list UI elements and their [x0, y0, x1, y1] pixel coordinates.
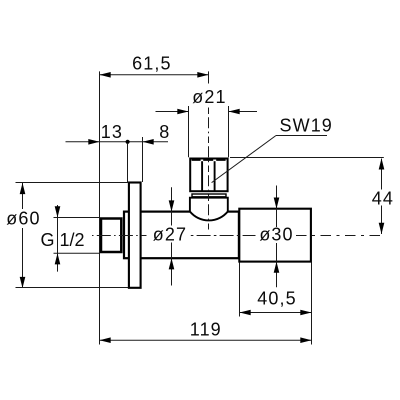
- svg-text:40,5: 40,5: [257, 289, 296, 309]
- SW19 leader diagonal: [212, 136, 276, 183]
- dim o60 vertical line lower: [22, 228, 24, 288]
- vertical centerline: [208, 108, 210, 230]
- dim 61,5 right tick: [208, 71, 210, 83]
- o60 extension bottom: [16, 287, 129, 289]
- dim 61,5 arrow left: [100, 72, 111, 78]
- dim o21 arrow left: [177, 109, 188, 115]
- svg-text:8: 8: [159, 122, 170, 142]
- dim o60 arrow top: [20, 183, 26, 194]
- 40,5 arrow left: [240, 310, 251, 316]
- dim 13-8 line: [66, 141, 169, 143]
- dim 61,5 line: [100, 74, 209, 76]
- 40,5 and 119 extension right: [311, 263, 313, 345]
- dim G1/2 vertical line: [57, 205, 59, 272]
- hex chamfer bar right: [216, 159, 225, 161]
- horizontal centerline seg2: [191, 235, 256, 237]
- dim o21 arrow right: [229, 109, 240, 115]
- 40,5 extension left: [239, 263, 241, 317]
- hex chamfer bar mid: [203, 159, 213, 161]
- svg-text:ø30: ø30: [259, 225, 293, 245]
- 44 top extension: [230, 157, 384, 159]
- bonnet dome: [190, 198, 228, 221]
- hex chamfer bar left: [192, 159, 201, 161]
- svg-text:44: 44: [372, 189, 394, 209]
- wall flange o60: [129, 183, 141, 288]
- dim o60 arrow bottom: [20, 277, 26, 288]
- 119 arrow right: [300, 337, 311, 343]
- G1/2 arrow down: [55, 206, 61, 217]
- extension from dot: [127, 143, 129, 182]
- body tube o27: [124, 212, 239, 259]
- horizontal centerline seg1: [92, 235, 147, 237]
- dim 13 arrow: [88, 139, 99, 145]
- extension line left long: [99, 71, 101, 344]
- o21 extension left: [188, 106, 190, 157]
- dim o27 vertical line upper: [171, 187, 173, 225]
- svg-text:ø27: ø27: [153, 225, 187, 245]
- 44 arrow up: [379, 158, 385, 169]
- dim 119 line: [100, 339, 312, 341]
- threaded nipple G1/2: [101, 219, 121, 253]
- hex facet line right: [214, 161, 216, 191]
- 40,5 arrow right: [300, 310, 311, 316]
- 44 arrow down: [379, 223, 385, 234]
- dim o21 line right tail: [229, 111, 258, 113]
- svg-text:119: 119: [190, 320, 222, 340]
- hex facet line left: [201, 161, 203, 191]
- dim 61,5 arrow right: [197, 72, 208, 78]
- svg-text:ø60: ø60: [6, 209, 40, 229]
- o27 arrow down: [169, 200, 175, 211]
- svg-text:SW19: SW19: [280, 115, 333, 135]
- dim 40,5 line: [240, 312, 312, 314]
- o27 arrow up: [169, 258, 175, 269]
- svg-text:13: 13: [101, 122, 123, 142]
- o30 arrow up: [274, 262, 280, 273]
- dim o30 vertical line lower: [276, 243, 278, 287]
- hex head SW19: [190, 159, 227, 192]
- washer ring: [192, 194, 226, 197]
- horizontal centerline seg3: [296, 235, 385, 237]
- dim o60 vertical line upper: [22, 183, 24, 209]
- G1/2 arrow up: [55, 253, 61, 264]
- SW19 leader underline: [276, 135, 327, 137]
- extension 8 right: [142, 137, 144, 182]
- G1/2 extension bottom: [54, 252, 101, 254]
- outlet cylinder o30: [239, 209, 311, 262]
- o60 extension top: [16, 182, 129, 184]
- svg-text:61,5: 61,5: [132, 53, 171, 73]
- dim 8 arrow: [143, 139, 154, 145]
- dim 44 vertical line lower: [381, 206, 383, 235]
- dim 44 vertical line upper: [381, 159, 383, 190]
- svg-text:ø21: ø21: [192, 87, 226, 107]
- o21 extension right: [228, 106, 230, 157]
- dim o30 vertical line upper: [276, 186, 278, 228]
- dim junction dot: [126, 140, 130, 144]
- dim o21 line left tail: [156, 111, 189, 113]
- dim o27 vertical line lower: [171, 243, 173, 286]
- 119 arrow left: [100, 337, 111, 343]
- o30 arrow down: [274, 198, 280, 209]
- svg-text:G 1/2: G 1/2: [41, 230, 85, 250]
- G1/2 extension top: [54, 217, 101, 219]
